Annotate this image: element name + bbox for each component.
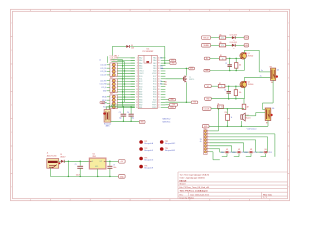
solder jumper SJ1 <box>221 149 233 154</box>
wire input to ground <box>67 161 69 176</box>
connector J1 DC jack <box>47 153 61 169</box>
svg-text:Date: 2005-05-05 20:15: Date: 2005-05-05 20:15 <box>190 193 209 196</box>
wire gate row A <box>210 58 240 60</box>
net label RX <box>169 98 176 101</box>
supply label +5V <box>119 160 126 164</box>
svg-text:TX: TX <box>160 81 162 83</box>
wire Q1 drain to R8 <box>244 50 270 72</box>
transistor Q1 2N7000 <box>240 52 253 59</box>
solder jumper SJ3 <box>245 149 257 154</box>
svg-text:10k: 10k <box>239 92 242 94</box>
svg-text:19: 19 <box>136 105 138 107</box>
wire to lower right pills <box>165 100 169 108</box>
svg-text:1k: 1k <box>231 117 233 119</box>
svg-text:24: 24 <box>158 99 160 101</box>
svg-text:GND: GND <box>95 166 98 168</box>
connector SV2 <box>100 77 118 93</box>
svg-text:SCL: SCL <box>160 65 163 67</box>
svg-text:EAGLE: EAGLE <box>180 179 188 182</box>
svg-text:LCD_D7: LCD_D7 <box>100 75 106 77</box>
svg-text:IN: IN <box>92 161 93 163</box>
wire gate row B <box>211 85 240 87</box>
svg-text:13: 13 <box>136 89 138 91</box>
svg-text:Rev:: Rev: <box>180 194 184 196</box>
wire BL row <box>211 108 244 110</box>
svg-text:27: 27 <box>158 91 160 93</box>
svg-text:RA3: RA3 <box>139 59 142 62</box>
svg-text:35: 35 <box>158 71 160 73</box>
resonator Q1 <box>103 110 111 128</box>
svg-text:5: 5 <box>288 132 289 134</box>
svg-text:LCD_DB4..7: LCD_DB4..7 <box>110 56 119 58</box>
svg-text:470: 470 <box>221 37 224 39</box>
svg-text:RB1: RB1 <box>233 152 236 154</box>
svg-text:R15: R15 <box>164 82 167 84</box>
wire regulator gnd <box>97 169 99 177</box>
wire SV4 fan <box>210 131 275 160</box>
IC2 voltage regulator 7805 <box>89 154 106 169</box>
net label BL pill top <box>202 107 211 110</box>
wire oscillator top rails <box>106 105 135 110</box>
resistor R2 <box>218 83 225 88</box>
ground label GND SV3 pin3 <box>100 101 107 104</box>
svg-text:2: 2 <box>288 50 289 52</box>
svg-text:C3: C3 <box>119 112 121 114</box>
net label row 1 left <box>202 36 211 40</box>
svg-text:5: 5 <box>11 132 12 134</box>
svg-text:4a: 4a <box>200 141 202 143</box>
svg-text:470: 470 <box>221 45 224 47</box>
test point TP2 <box>160 140 176 145</box>
svg-text:LCD_D5: LCD_D5 <box>100 68 106 70</box>
svg-text:15: 15 <box>136 94 138 96</box>
net label TX <box>169 104 177 107</box>
resistor R3 vertical <box>235 58 242 70</box>
svg-text:38: 38 <box>158 63 160 65</box>
svg-text:28: 28 <box>158 89 160 91</box>
svg-text:D3 LL4148: D3 LL4148 <box>230 42 237 44</box>
svg-text:23: 23 <box>158 102 160 104</box>
svg-text:PIC16F628P: PIC16F628P <box>142 51 154 53</box>
svg-text:7: 7 <box>288 187 289 189</box>
svg-text:TP5: TP5 <box>144 157 147 159</box>
svg-text:SV: SV <box>200 139 202 141</box>
resistor R5 <box>219 34 225 39</box>
wire to VCC pill <box>165 61 170 64</box>
svg-text:RB0: RB0 <box>221 152 224 154</box>
svg-text:17: 17 <box>136 99 138 101</box>
svg-text:100n: 100n <box>113 167 116 169</box>
wire row 2 a <box>211 44 220 46</box>
svg-text:2N7000: 2N7000 <box>248 55 254 57</box>
svg-text:Order: Jugendgruppe 20: Order: Jugendgruppe 2004/05 <box>180 177 205 180</box>
svg-text:2N7000: 2N7000 <box>248 84 254 86</box>
svg-text:1: 1 <box>11 23 12 25</box>
svg-text:4: 4 <box>11 105 12 107</box>
net label row 1 right <box>244 36 249 39</box>
svg-text:34: 34 <box>158 73 160 75</box>
svg-text:LCD_D4: LCD_D4 <box>100 64 106 66</box>
IC1 right pins <box>152 57 165 110</box>
svg-text:R1: R1 <box>220 55 222 57</box>
svg-text:PSP0: PSP0 <box>152 107 156 109</box>
svg-text:RA0: RA0 <box>153 59 156 62</box>
capacitor C7 <box>107 161 116 176</box>
resistor R11 vertical <box>242 99 249 110</box>
svg-text:25: 25 <box>158 97 160 99</box>
svg-text:100uF: 100uF <box>76 174 80 176</box>
wire Q2 drain to R8 wiper <box>245 76 271 82</box>
svg-text:RB1: RB1 <box>139 107 142 109</box>
svg-text:39: 39 <box>158 60 160 62</box>
supply label T1 drain <box>189 67 195 70</box>
svg-text:S1: S1 <box>218 103 220 105</box>
svg-text:6: 6 <box>11 159 12 161</box>
supply label GND right <box>170 62 176 65</box>
svg-text:R5: R5 <box>220 34 222 36</box>
resistor R4 vertical <box>234 86 241 99</box>
svg-text:SJ4: SJ4 <box>265 149 268 151</box>
net label DTR <box>168 106 175 109</box>
wire T1 source to row17 <box>165 82 191 103</box>
svg-text:Sheet: /: Sheet: / <box>180 183 187 186</box>
wire Q1 source <box>243 59 245 71</box>
svg-text:Q1: Q1 <box>248 53 250 55</box>
svg-text:32: 32 <box>158 78 160 80</box>
svg-text:21: 21 <box>158 107 160 109</box>
solder jumper SJ2 <box>233 149 245 154</box>
transistor Q2 2N7000 <box>240 81 253 88</box>
net label row17 <box>191 101 198 104</box>
svg-text:Drawn by: Markus: Drawn by: Markus <box>180 197 195 199</box>
svg-text:22p: 22p <box>132 117 135 119</box>
wire SJ4 stub <box>261 153 266 156</box>
svg-text:P1.2: P1.2 <box>254 152 257 154</box>
diode D1 1N4007 <box>60 154 65 163</box>
svg-text:33: 33 <box>158 76 160 78</box>
svg-text:29: 29 <box>158 86 160 88</box>
wire SJ3 stub <box>246 153 251 156</box>
wire row 1 a <box>211 37 220 39</box>
wire SJ2 stub <box>234 153 239 156</box>
net label GND pill bottom <box>202 125 209 128</box>
resistor R10 vertical <box>225 109 233 127</box>
svg-text:P1.3: P1.3 <box>269 152 272 154</box>
net labels above SV1 <box>99 56 119 62</box>
capacitor C1 <box>225 58 232 70</box>
svg-text:SV2: SV2 <box>110 77 113 79</box>
svg-text:D4: D4 <box>131 45 133 47</box>
svg-text:26: 26 <box>158 94 160 96</box>
net label LCD_BL drive A <box>204 57 210 60</box>
svg-text:R6: R6 <box>220 42 222 44</box>
svg-text:RA1: RA1 <box>153 57 156 60</box>
svg-text:E: E <box>189 200 190 202</box>
svg-text:Buzzer: Buzzer <box>246 117 251 119</box>
net label row 2 left <box>202 44 211 48</box>
svg-text:LCD_BL: LCD_BL <box>204 108 210 110</box>
svg-text:22p: 22p <box>119 117 122 119</box>
svg-text:4: 4 <box>288 105 289 107</box>
svg-text:3a: 3a <box>261 70 263 72</box>
wire bottom row <box>209 121 268 128</box>
capacitor C5 electrolytic <box>75 161 83 176</box>
wire cluster to ladder <box>112 60 125 62</box>
svg-text:LCD_RW: LCD_RW <box>100 84 107 86</box>
svg-text:10k: 10k <box>277 70 280 72</box>
svg-text:TP1: TP1 <box>144 141 147 143</box>
wire SV4 pin1 up <box>218 109 220 131</box>
IC IC1 PIC16F628 DIP body <box>138 49 157 109</box>
svg-text:BL: BL <box>206 58 208 60</box>
resistor R6 <box>219 42 225 47</box>
connector SV4 <box>200 128 210 154</box>
svg-text:12: 12 <box>136 86 138 88</box>
buzzer LS1 symbol <box>241 113 251 121</box>
svg-text:2: 2 <box>11 50 12 52</box>
net label drive B <box>205 85 212 88</box>
wire IC to T1 gate <box>165 78 182 80</box>
svg-text:F: F <box>229 10 230 12</box>
svg-text:14: 14 <box>136 91 138 93</box>
svg-text:Title: PICFxxx_LCDAdapter: Title: PICFxxx_LCDAdapter <box>180 190 209 193</box>
svg-text:OUT: OUT <box>99 161 102 163</box>
svg-text:6: 6 <box>288 159 289 161</box>
capacitor C4 <box>127 107 134 122</box>
svg-text:RB2: RB2 <box>245 152 248 154</box>
svg-text:R8: R8 <box>270 67 272 69</box>
svg-text:C1: C1 <box>225 63 227 65</box>
svg-text:RB3: RB3 <box>260 152 263 154</box>
wire LS1 to R9 <box>245 113 265 116</box>
svg-text:TP4: TP4 <box>165 148 168 150</box>
svg-text:2a: 2a <box>260 76 262 78</box>
wire Q2 source <box>244 87 246 99</box>
ground label rail A <box>204 69 210 72</box>
wire regulator out <box>106 161 119 163</box>
svg-text:TP6: TP6 <box>144 165 147 167</box>
svg-text:LCD_E: LCD_E <box>101 87 106 89</box>
wire oscillator bottom rail <box>111 121 140 123</box>
connector SV1 <box>100 63 117 77</box>
svg-text:20: 20 <box>136 107 138 109</box>
svg-text:10: 10 <box>136 81 138 83</box>
wire row 2 c <box>235 44 244 46</box>
svg-text:D2 LL4148: D2 LL4148 <box>230 34 237 36</box>
svg-text:F: F <box>229 200 230 202</box>
svg-text:7: 7 <box>11 187 12 189</box>
svg-text:10k: 10k <box>239 64 242 66</box>
svg-text:SMCLK: SMCLK <box>203 37 209 39</box>
wire main input rail <box>64 161 89 163</box>
test point TP6 <box>139 165 153 170</box>
svg-text:Turn Timer Jugendgruppe LM A 2: Turn Timer Jugendgruppe LM A 2/4 <box>180 174 210 177</box>
svg-text:18: 18 <box>136 102 138 104</box>
potentiometer R9 <box>265 108 274 125</box>
svg-text:Rev 1.0x: Rev 1.0x <box>263 194 272 196</box>
svg-text:C2: C2 <box>224 89 226 91</box>
wire row 2 b <box>226 44 232 46</box>
wire ladder horizontals <box>117 58 135 108</box>
svg-text:16: 16 <box>136 97 138 99</box>
test point TP5 <box>139 157 154 162</box>
svg-text:C7: C7 <box>113 164 115 166</box>
svg-text:B: B <box>70 10 71 12</box>
svg-text:TP3: TP3 <box>144 148 147 150</box>
svg-text:RA4: RA4 <box>139 62 142 65</box>
svg-text:Q2: Q2 <box>248 82 250 84</box>
svg-text:10k: 10k <box>164 84 167 86</box>
svg-text:1 / 1: 1 / 1 <box>263 197 267 199</box>
svg-text:1: 1 <box>288 23 289 25</box>
wire ground rail power <box>50 168 118 177</box>
svg-text:RX: RX <box>160 84 162 86</box>
svg-text:D1: D1 <box>60 154 62 156</box>
ground label GND oscillator <box>139 120 145 123</box>
svg-text:SJ2: SJ2 <box>238 149 241 151</box>
solder jumper SJ4 <box>260 149 272 154</box>
wire rail B <box>211 98 244 100</box>
wire R8 bottom to R9 <box>263 80 274 109</box>
transistor T1 BS170 <box>164 76 194 86</box>
svg-text:2x: 2x <box>99 59 101 61</box>
svg-text:4148: 4148 <box>131 47 134 49</box>
svg-text:22: 22 <box>158 105 160 107</box>
test point TP3 <box>139 147 154 152</box>
diode D4 <box>126 45 134 49</box>
IC1 left pins <box>131 57 144 110</box>
svg-text:C5: C5 <box>75 164 77 166</box>
svg-text:7805: 7805 <box>92 156 96 158</box>
supply label VCC <box>170 59 176 62</box>
potentiometer R8 <box>270 67 280 84</box>
svg-text:SJ1: SJ1 <box>226 149 229 151</box>
svg-text:1k: 1k <box>222 58 224 60</box>
svg-text:T1: T1 <box>189 77 191 79</box>
svg-text:LCD_RS: LCD_RS <box>100 80 106 82</box>
svg-text:TP2: TP2 <box>165 141 168 143</box>
svg-text:B: B <box>70 200 71 202</box>
capacitor C3 <box>119 107 126 122</box>
wire jack to D1 <box>59 160 61 162</box>
jumper S1 on BL row <box>218 103 224 108</box>
wire into SV1 top <box>106 56 108 63</box>
svg-text:R10: R10 <box>225 112 228 114</box>
svg-text:1k: 1k <box>221 86 223 88</box>
connector SV3 <box>102 93 117 109</box>
svg-text:11: 11 <box>136 84 138 86</box>
svg-text:GND: GND <box>101 102 104 104</box>
svg-text:SV3: SV3 <box>110 93 113 95</box>
svg-text:RA2: RA2 <box>139 57 142 60</box>
svg-text:R2: R2 <box>219 83 221 85</box>
net label row 2 right <box>244 44 249 47</box>
svg-text:10k: 10k <box>272 108 275 110</box>
diode D2 <box>230 34 237 42</box>
wire row 1 c <box>235 37 244 39</box>
svg-text:RA5: RA5 <box>139 64 142 67</box>
wire above IC with diode <box>112 46 165 64</box>
wire row 1 b <box>226 37 232 39</box>
svg-text:BS170: BS170 <box>189 79 194 81</box>
wire rail A <box>210 70 245 72</box>
svg-text:3: 3 <box>11 77 12 79</box>
wire T1 drain row <box>165 68 188 76</box>
svg-text:SJ3: SJ3 <box>250 149 253 151</box>
ground label GND power <box>119 175 126 179</box>
wire ladder verticals <box>123 60 125 107</box>
svg-text:E: E <box>189 10 190 12</box>
svg-text:4k7: 4k7 <box>247 107 250 109</box>
svg-text:3: 3 <box>288 77 289 79</box>
test point TP1 <box>139 140 153 145</box>
node OSC labels <box>163 118 171 124</box>
diode D3 <box>230 42 237 50</box>
svg-text:4MHz: 4MHz <box>106 126 110 128</box>
test point TP4 <box>160 147 175 152</box>
title block <box>178 172 288 199</box>
svg-text:1N4007: 1N4007 <box>60 157 65 159</box>
resistor R1 <box>219 55 226 60</box>
svg-text:J1: J1 <box>47 153 49 155</box>
svg-text:File: PICFxxx_Timer_LM_Kind_v0: File: PICFxxx_Timer_LM_Kind_v04 <box>180 186 210 189</box>
frame border <box>11 9 290 201</box>
svg-text:LCD_D6: LCD_D6 <box>100 71 106 73</box>
wire SJ1 stub <box>222 153 227 156</box>
svg-text:IC2: IC2 <box>92 154 95 156</box>
ground label rail B <box>205 97 212 100</box>
svg-text:C4: C4 <box>127 112 129 114</box>
capacitor C2 <box>224 86 231 99</box>
